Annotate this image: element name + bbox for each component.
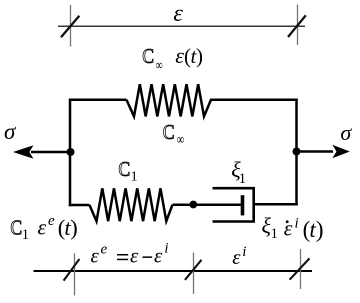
svg-text:i: i: [242, 244, 246, 260]
dashpot xi_1: cylinder: [213, 188, 254, 221]
svg-text:C: C: [163, 122, 175, 145]
wire: lower-left lead: [69, 204, 90, 207]
dimension line epsilon (top): [58, 25, 305, 27]
wire: rod from spring to piston: [173, 203, 241, 206]
label C_1 (above lower spring): [118, 159, 137, 184]
label eps^i (bottom right segment): [232, 244, 246, 269]
wire: dashpot to right vertical: [254, 203, 298, 206]
label eps^e = eps - eps^i (bottom left segment): [91, 241, 169, 268]
label xi_1 (above dashpot): [231, 157, 246, 187]
spring C_inf (top branch): [127, 84, 298, 116]
svg-text:): ): [196, 44, 203, 68]
wire: right vertical: [295, 99, 298, 206]
spring C_1 (lower branch): [90, 188, 173, 221]
node middle (between spring and dashpot): [189, 201, 197, 209]
label C_inf (below top spring): [163, 122, 184, 148]
svg-text:i: i: [295, 216, 299, 232]
tick right (top dimension): [288, 5, 306, 46]
svg-text:1: 1: [131, 169, 138, 184]
svg-text:ε: ε: [232, 245, 241, 269]
svg-text:i: i: [164, 241, 168, 257]
node right: [293, 148, 301, 156]
svg-text:ε: ε: [38, 214, 47, 239]
svg-text:σ: σ: [340, 120, 352, 145]
svg-text:ε: ε: [91, 244, 100, 268]
svg-text:e: e: [48, 213, 55, 229]
svg-text:ε: ε: [284, 216, 293, 241]
tick right (bottom): [290, 249, 310, 289]
svg-text:ε: ε: [173, 1, 183, 27]
tick left (top dimension): [61, 5, 79, 47]
dashpot xi_1: piston plate: [241, 195, 245, 215]
dimension line bottom: [34, 270, 313, 272]
svg-text:1: 1: [22, 227, 29, 243]
tick left (bottom): [64, 253, 80, 295]
svg-text:): ): [70, 215, 78, 240]
svg-text:e: e: [101, 242, 108, 258]
arrow sigma left: [13, 145, 70, 159]
svg-text:C: C: [142, 46, 154, 69]
label C_inf eps(t) (above top spring): [142, 43, 203, 73]
arrow sigma right: [297, 145, 350, 158]
svg-text:∞: ∞: [177, 132, 184, 148]
svg-text:ε: ε: [154, 244, 163, 268]
svg-text:1: 1: [239, 171, 247, 187]
svg-text:C: C: [10, 217, 22, 240]
svg-text:ε: ε: [130, 244, 139, 268]
svg-text:ε: ε: [175, 43, 184, 68]
tick middle (bottom): [185, 253, 202, 295]
label C_1 eps^e(t) (left of lower spring): [10, 213, 77, 243]
svg-text:1: 1: [271, 226, 279, 242]
node left: [67, 148, 75, 156]
svg-text:C: C: [118, 159, 130, 182]
svg-text:∞: ∞: [156, 57, 163, 73]
wire: left vertical + top-left lead: [70, 100, 127, 207]
svg-text:): ): [316, 217, 324, 242]
label xi_1 epsdot^i(t) (right of dashpot): [262, 213, 324, 242]
svg-text:σ: σ: [4, 119, 17, 144]
